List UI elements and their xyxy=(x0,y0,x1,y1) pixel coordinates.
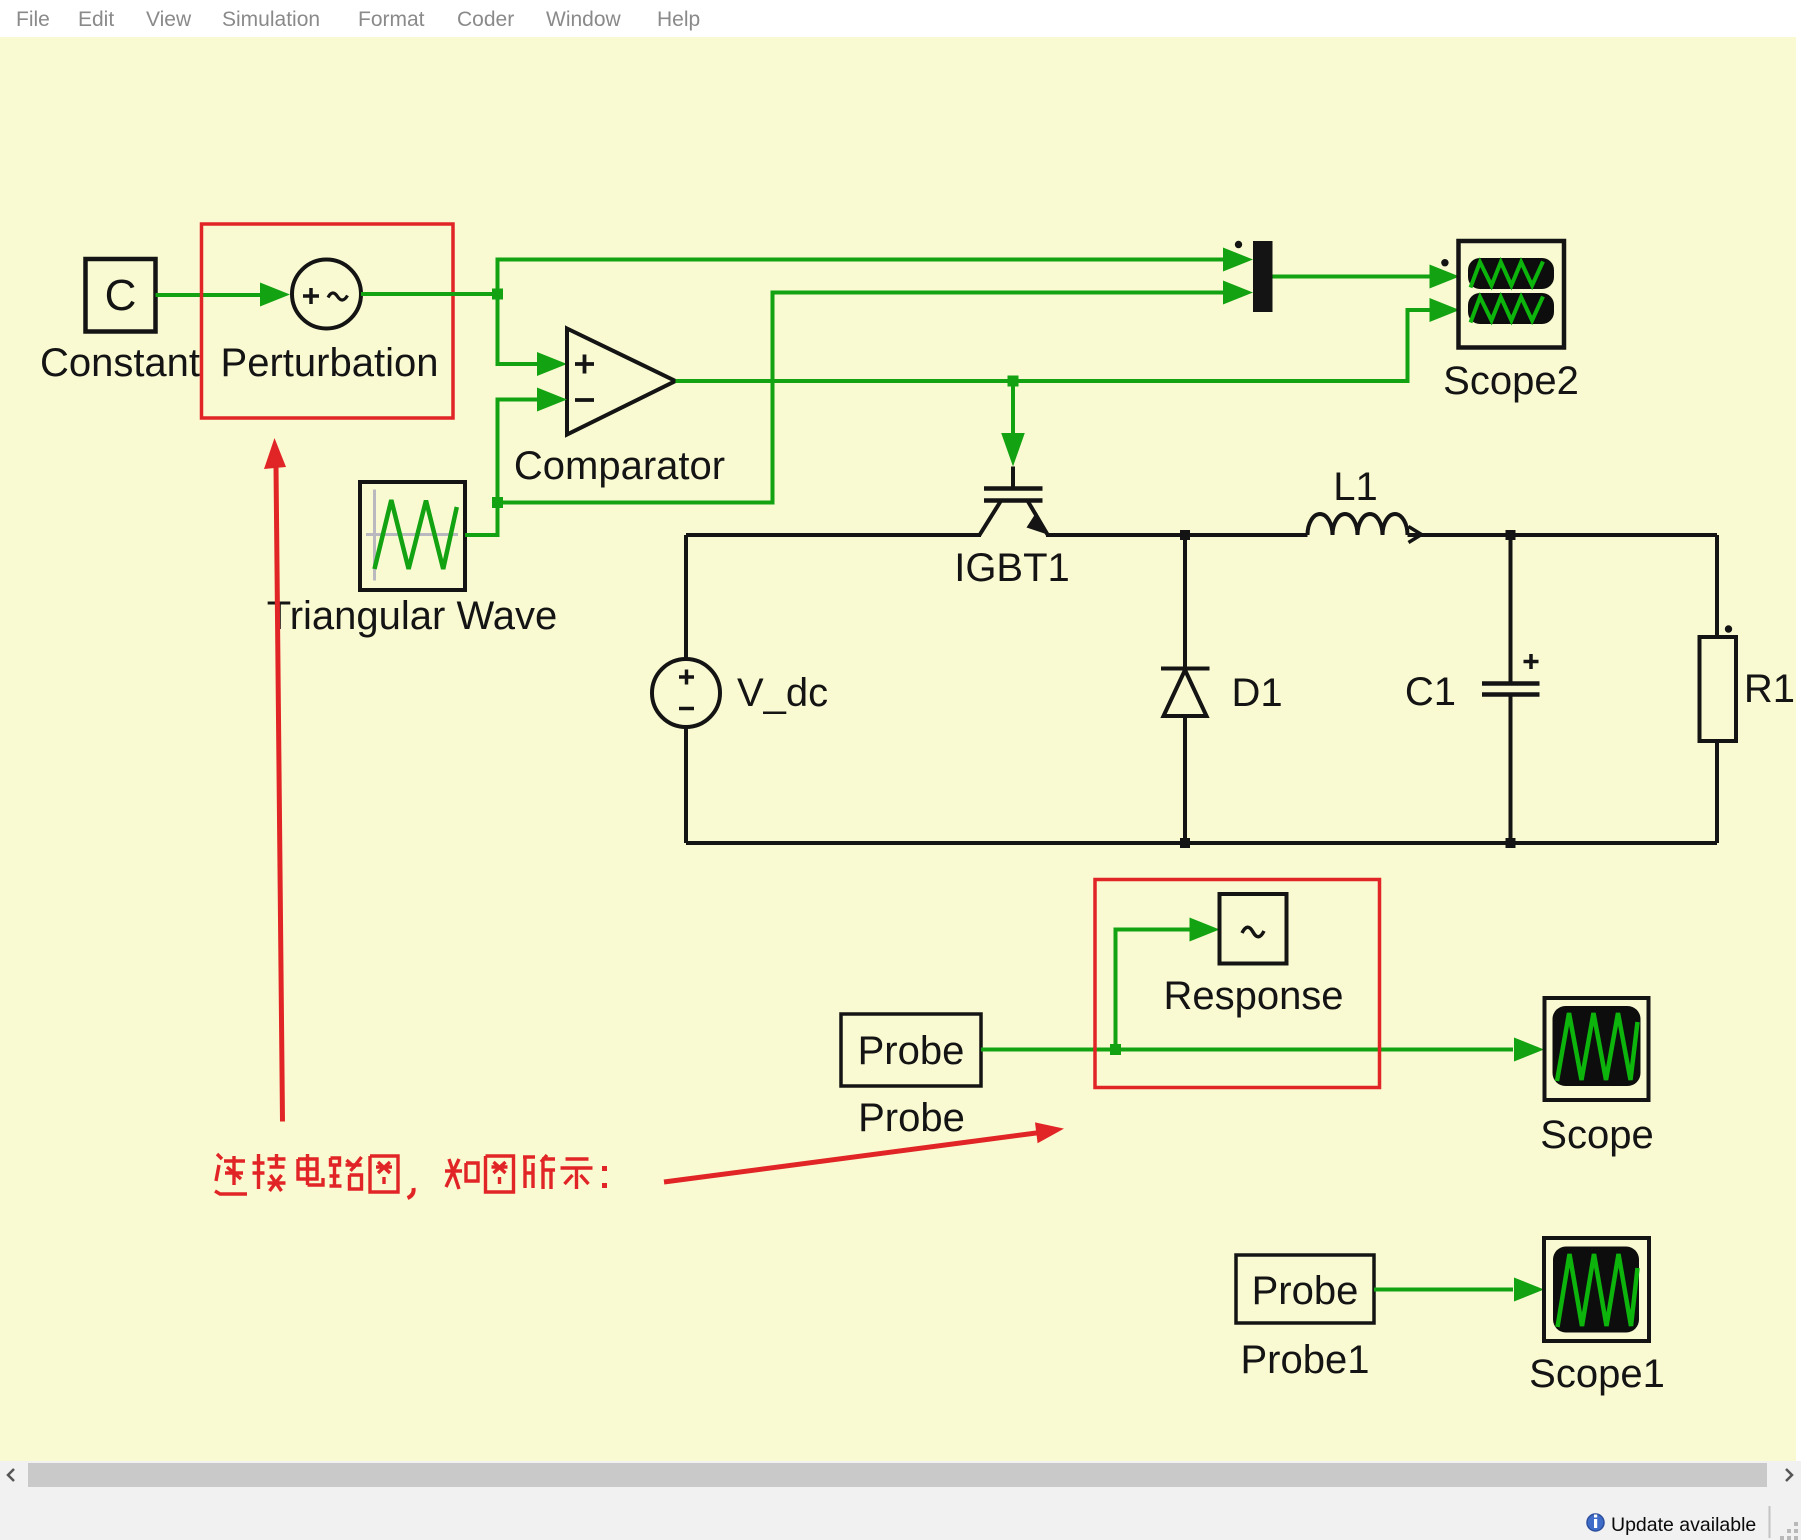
wire Constant to Perturbation xyxy=(156,293,262,297)
red annotation diagonal arrow xyxy=(664,1133,1040,1183)
wire node B to mux input 2 xyxy=(498,293,1225,503)
wire Perturbation output to node A xyxy=(361,292,498,296)
wire node C down to IGBT1 gate xyxy=(1011,381,1015,434)
red highlight rectangle around Perturbation xyxy=(202,224,454,418)
wire Comparator output to node C and Scope2 input 2 xyxy=(676,310,1431,381)
resize grip xyxy=(1780,1522,1798,1540)
right edge white strip xyxy=(1796,37,1801,1461)
svg-text:Probe: Probe xyxy=(858,1029,965,1073)
capacitor C1 xyxy=(1482,535,1540,843)
wire bottom rail xyxy=(686,841,1717,845)
svg-text:Perturbation: Perturbation xyxy=(221,341,439,385)
svg-text:Coder: Coder xyxy=(457,8,514,31)
wire top rail right segment xyxy=(1408,533,1718,537)
wire Probe output to node D and Scope xyxy=(981,1048,1513,1052)
node B junction xyxy=(492,497,503,508)
arrowhead into mux input 1 xyxy=(1223,248,1253,272)
wire Probe1 to Scope1 xyxy=(1374,1288,1513,1292)
horizontal scrollbar xyxy=(0,1461,1801,1489)
block Triangular Wave xyxy=(360,482,465,590)
mux xyxy=(1253,241,1273,312)
svg-text:Scope: Scope xyxy=(1540,1113,1653,1157)
Scope2 signal dot xyxy=(1441,259,1448,266)
arrowhead into Scope input xyxy=(1514,1038,1544,1062)
arrowhead into mux input 2 xyxy=(1223,281,1253,305)
block Constant C xyxy=(86,259,156,332)
node A junction xyxy=(492,289,503,300)
svg-text:Edit: Edit xyxy=(78,8,114,31)
svg-text:Simulation: Simulation xyxy=(222,8,320,31)
svg-text:View: View xyxy=(146,8,192,31)
wire top rail left segment xyxy=(686,533,981,537)
L1 current arrow xyxy=(1409,527,1422,543)
wire V_dc top lead xyxy=(684,535,688,659)
transistor IGBT1 xyxy=(980,467,1050,536)
svg-text:Probe: Probe xyxy=(1252,1269,1359,1313)
diode D1 xyxy=(1161,535,1210,843)
arrowhead into Scope1 input xyxy=(1514,1278,1544,1302)
wire node A up to mux input 1 xyxy=(498,260,1225,295)
wire node B up to Comparator minus input xyxy=(498,400,539,503)
svg-text:C: C xyxy=(105,271,137,320)
svg-text:V_dc: V_dc xyxy=(737,671,828,715)
svg-text:IGBT1: IGBT1 xyxy=(954,546,1070,590)
op-amp Comparator xyxy=(567,329,676,435)
update icon xyxy=(1587,1514,1604,1531)
R1 signal dot xyxy=(1725,625,1732,632)
svg-text:Comparator: Comparator xyxy=(514,444,725,488)
wire top rail middle segment xyxy=(1046,533,1308,537)
wire mux output to Scope2 input 1 xyxy=(1273,275,1431,279)
svg-text:Format: Format xyxy=(358,8,425,31)
red highlight rectangle around Response xyxy=(1095,880,1380,1088)
resistor R1 xyxy=(1700,637,1737,741)
menu bar xyxy=(0,0,1801,37)
arrowhead into Scope2 input 1 xyxy=(1430,265,1460,289)
scope Scope2 xyxy=(1459,241,1565,348)
svg-text:Update available: Update available xyxy=(1611,1514,1756,1536)
arrowhead into Scope2 input 2 xyxy=(1430,298,1460,322)
junction top rail at D1 xyxy=(1180,530,1190,540)
wire R1 bottom lead xyxy=(1715,741,1719,843)
arrowhead into Response input xyxy=(1190,918,1220,942)
svg-text:D1: D1 xyxy=(1232,671,1283,715)
arrowhead into IGBT1 gate xyxy=(1001,433,1025,467)
wire R1 top lead xyxy=(1715,535,1719,637)
svg-text:L1: L1 xyxy=(1333,465,1378,509)
svg-text:Scope2: Scope2 xyxy=(1443,359,1579,403)
svg-text:Probe1: Probe1 xyxy=(1241,1338,1370,1382)
block Probe1 xyxy=(1236,1255,1374,1323)
node D junction xyxy=(1110,1044,1121,1055)
block Probe xyxy=(841,1014,981,1086)
mux signal dot xyxy=(1235,241,1242,248)
node C junction on gate wire xyxy=(1008,376,1019,387)
svg-text:R1: R1 xyxy=(1744,667,1795,711)
svg-text:Probe: Probe xyxy=(858,1096,965,1140)
inductor L1 xyxy=(1308,514,1408,535)
junction top rail at C1 xyxy=(1506,530,1516,540)
source V_dc xyxy=(652,659,720,727)
wire Triangular Wave output to node B xyxy=(465,503,498,536)
wire V_dc bottom lead xyxy=(684,727,688,843)
wire node D up to Response input xyxy=(1116,930,1191,1050)
svg-text:Help: Help xyxy=(657,8,700,31)
svg-text:C1: C1 xyxy=(1405,670,1456,714)
red annotation text (Chinese): 连接电路图，如图所示： xyxy=(215,1154,607,1198)
scope Scope1 xyxy=(1544,1238,1649,1341)
svg-text:File: File xyxy=(16,8,50,31)
svg-text:Scope1: Scope1 xyxy=(1529,1352,1665,1396)
status bar xyxy=(0,1489,1801,1540)
arrowhead into Comparator plus input xyxy=(537,352,567,376)
source Perturbation (+~) xyxy=(292,260,361,329)
svg-text:Triangular Wave: Triangular Wave xyxy=(267,594,557,638)
arrowhead into Perturbation input xyxy=(260,283,290,307)
red annotation vertical arrow xyxy=(276,466,283,1122)
block Response (~) xyxy=(1220,894,1287,964)
arrowhead into Comparator minus input xyxy=(537,388,567,412)
wire node A down to Comparator plus input xyxy=(498,294,539,364)
scope Scope xyxy=(1545,998,1649,1100)
junction bottom rail at D1 xyxy=(1180,838,1190,848)
svg-text:Constant: Constant xyxy=(40,341,200,385)
junction bottom rail at C1 xyxy=(1506,838,1516,848)
svg-text:Response: Response xyxy=(1163,974,1343,1018)
svg-text:Window: Window xyxy=(546,8,622,31)
